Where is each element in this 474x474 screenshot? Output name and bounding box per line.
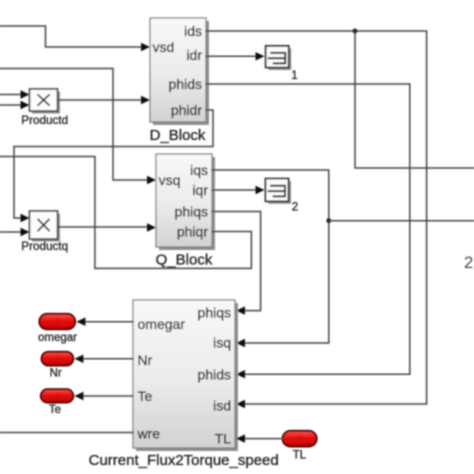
wire ids output to isd input (around right): [206, 31, 427, 404]
arrow Productq in2: [21, 228, 30, 236]
arrow into isd port: [236, 400, 245, 408]
svg-text:phids: phids: [198, 367, 231, 383]
wire wre to left edge: [0, 432, 133, 434]
wire phidr feedback to Productq in1: [14, 110, 213, 218]
arrow into display 1: [256, 52, 265, 60]
wire iqs output to isq input: [212, 170, 329, 343]
arrow into omegar tag: [76, 318, 85, 326]
tag omegar: [38, 314, 77, 344]
svg-text:2: 2: [55, 317, 60, 327]
svg-text:Te: Te: [49, 404, 61, 416]
wire phiqr feedback to left edge: [0, 157, 251, 269]
arrow into TL port: [236, 434, 245, 442]
svg-text:Te: Te: [138, 388, 153, 404]
wire omegar to tag: [85, 321, 133, 323]
svg-text:wre: wre: [137, 426, 161, 442]
svg-text:idr: idr: [186, 47, 202, 63]
arrow Productd in2: [21, 101, 30, 109]
wire to vsd: [0, 26, 142, 47]
tag Nr: [42, 352, 74, 380]
svg-text:omegar: omegar: [138, 316, 186, 332]
svg-text:phiqr: phiqr: [177, 224, 208, 240]
svg-text:isq: isq: [213, 335, 231, 351]
svg-text:4: 4: [297, 434, 302, 444]
svg-text:Current_Flux2Torque_speed: Current_Flux2Torque_speed: [89, 452, 279, 469]
product Productq: [21, 211, 68, 253]
svg-text:Nr: Nr: [50, 368, 62, 380]
wire Productq input 2: [0, 231, 22, 233]
wire Te to tag: [83, 395, 133, 397]
svg-text:D_Block: D_Block: [150, 127, 206, 144]
wire phids output to phids input (around right): [206, 84, 410, 374]
wire iqr to display 2: [212, 189, 256, 191]
arrow into D_Block in2: [141, 96, 150, 104]
svg-text:Nr: Nr: [138, 352, 153, 368]
svg-text:2: 2: [292, 202, 298, 214]
svg-text:phidr: phidr: [171, 102, 202, 118]
svg-text:phids: phids: [169, 76, 202, 92]
svg-text:1: 1: [291, 70, 297, 82]
display block 1: [266, 46, 298, 82]
arrow into phiqs port: [236, 306, 245, 314]
svg-text:vsq: vsq: [159, 172, 181, 188]
arrow into Nr tag: [74, 355, 83, 363]
wire Productd input 1: [0, 94, 22, 96]
svg-text:Q_Block: Q_Block: [156, 252, 213, 269]
block Current_Flux2Torque_speed: [89, 300, 279, 469]
display block 2: [266, 179, 299, 214]
svg-text:3: 3: [55, 354, 60, 364]
junction node on iqs wire: [326, 218, 331, 223]
wire phiqs output to phiqs input: [212, 212, 261, 311]
block D_Block: [150, 18, 209, 144]
wire Productd to D_Block in2: [58, 99, 142, 101]
svg-text:isd: isd: [213, 398, 231, 414]
arrow into display 2: [256, 186, 265, 194]
arrow Productd in1: [21, 90, 30, 98]
svg-text:iqs: iqs: [190, 162, 208, 178]
svg-text:4: 4: [54, 391, 59, 401]
junction node on ids wire: [353, 29, 358, 34]
wire Nr to tag: [83, 358, 133, 360]
arrow into phids port: [236, 370, 245, 378]
product Productd: [21, 89, 68, 127]
arrow into Te tag: [74, 392, 83, 400]
svg-text:Productd: Productd: [21, 114, 68, 127]
arrow into Productq in1: [21, 214, 30, 222]
svg-text:TL: TL: [293, 450, 307, 462]
tag TL: [283, 431, 317, 462]
arrow into Q_Block in2: [147, 223, 156, 231]
arrow into isq port: [236, 339, 245, 347]
wire ids branch to right edge: [355, 31, 474, 168]
wire Productq to Q_Block in2: [58, 226, 148, 228]
arrow into vsd port: [141, 43, 150, 51]
wire iqs branch to right edge: [329, 220, 474, 222]
svg-text:phiqs: phiqs: [175, 204, 208, 220]
wire idr to display 1: [206, 55, 256, 57]
svg-text:Productq: Productq: [21, 240, 68, 253]
svg-text:vsd: vsd: [153, 39, 175, 55]
block Q_Block: [156, 154, 215, 269]
wire to vsq: [0, 69, 148, 181]
svg-text:TL: TL: [215, 431, 232, 447]
wire TL tag to block: [245, 438, 283, 440]
tag Te: [41, 389, 74, 416]
wire Productd input 2: [0, 104, 22, 106]
svg-text:ids: ids: [184, 23, 202, 39]
svg-text:2: 2: [464, 254, 473, 272]
svg-text:omegar: omegar: [38, 332, 77, 344]
svg-text:iqr: iqr: [192, 182, 208, 198]
arrow into vsq port: [147, 176, 156, 184]
svg-text:phiqs: phiqs: [198, 305, 231, 321]
